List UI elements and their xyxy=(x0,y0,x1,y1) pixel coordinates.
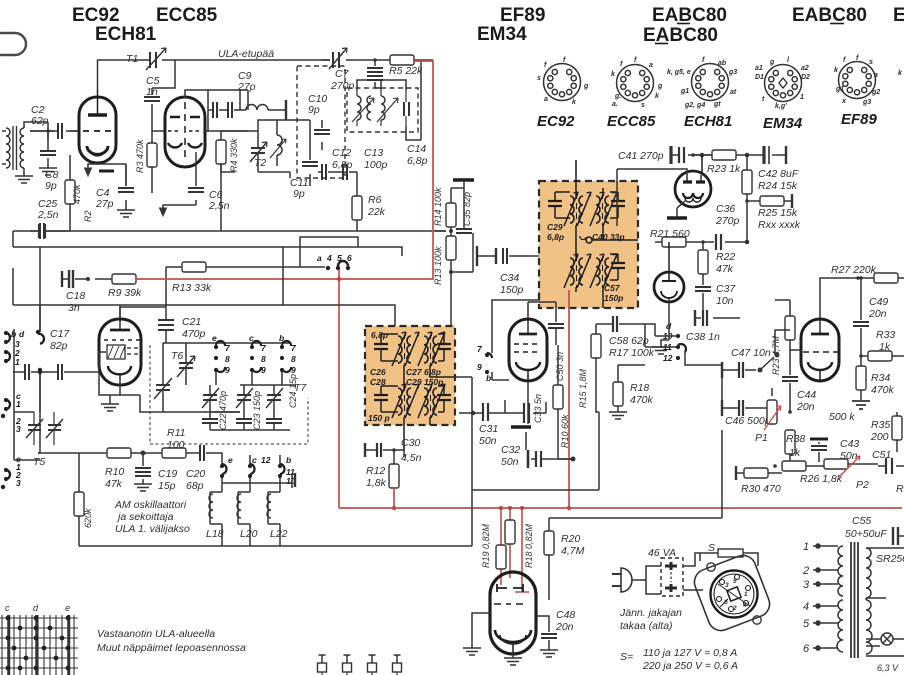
wire ECH81 plate up xyxy=(119,307,121,319)
ground EM34 xyxy=(667,201,687,218)
svg-text:6: 6 xyxy=(803,643,810,655)
wire R24 down xyxy=(617,169,747,242)
wire IF box top xyxy=(357,60,433,140)
switch box dashed xyxy=(661,558,683,596)
svg-text:g1: g1 xyxy=(680,88,689,95)
svg-text:3n: 3n xyxy=(68,302,80,314)
wire T1 down C5 xyxy=(152,60,175,131)
switch contacts group 3 xyxy=(280,341,297,375)
wire red drop R19 xyxy=(500,508,502,585)
wire C35 bar xyxy=(435,180,464,231)
svg-text:T5: T5 xyxy=(33,456,45,468)
wire L row xyxy=(216,453,292,488)
svg-text:g.: g. xyxy=(614,93,621,100)
svg-text:2,5n: 2,5n xyxy=(208,200,230,212)
ground C19 xyxy=(134,484,152,491)
resistor R9 39k xyxy=(86,274,142,299)
box2 cap top right xyxy=(437,334,451,361)
wire red R9 to R5 line xyxy=(136,61,433,279)
svg-text:EC92: EC92 xyxy=(537,113,575,130)
capacitor C17 xyxy=(13,364,78,380)
svg-text:R34: R34 xyxy=(871,372,890,384)
svg-text:C14: C14 xyxy=(407,143,426,155)
svg-text:S: S xyxy=(708,542,715,554)
svg-text:8: 8 xyxy=(225,354,230,364)
wire red R12 to bus xyxy=(393,488,395,508)
svg-text:C55: C55 xyxy=(852,515,871,527)
svg-text:C23 150p: C23 150p xyxy=(252,391,262,430)
svg-text:2: 2 xyxy=(802,565,809,577)
corner tab xyxy=(0,33,26,55)
wire L bottom xyxy=(38,412,472,546)
wire C34 to grid xyxy=(492,300,540,380)
resistor R35 200 xyxy=(870,412,902,452)
svg-text:3: 3 xyxy=(16,478,21,488)
trimmer T1 xyxy=(146,48,166,70)
svg-text:C38 1n: C38 1n xyxy=(686,331,720,343)
resistor R20 4,7M xyxy=(544,518,585,600)
svg-text:150p: 150p xyxy=(604,293,623,303)
capacitor C48 20n xyxy=(536,609,575,657)
svg-text:C50 3n: C50 3n xyxy=(555,352,565,381)
svg-text:L22: L22 xyxy=(270,528,288,540)
caps below trimmers xyxy=(202,385,296,430)
dashed box FM IF transformer xyxy=(347,88,418,132)
capacitor C37 10n xyxy=(695,274,736,318)
svg-text:R33: R33 xyxy=(876,329,895,341)
transformer primary windings xyxy=(837,546,843,652)
box2 coil pair left xyxy=(392,332,419,366)
svg-text:10n: 10n xyxy=(716,295,734,307)
svg-text:R11: R11 xyxy=(167,427,185,439)
svg-text:R: R xyxy=(896,483,904,495)
svg-text:R15 1,8M: R15 1,8M xyxy=(578,368,588,408)
small triode V5 xyxy=(654,242,684,302)
wire red drop grid xyxy=(515,508,529,592)
svg-text:T1: T1 xyxy=(126,53,138,65)
svg-text:4: 4 xyxy=(803,601,809,613)
svg-text:470k: 470k xyxy=(630,394,654,406)
svg-text:20n: 20n xyxy=(868,308,887,320)
svg-text:500 k: 500 k xyxy=(829,411,855,423)
wire bus y247 xyxy=(13,247,402,256)
svg-text:EABC80: EABC80 xyxy=(792,5,867,26)
svg-text:4: 4 xyxy=(742,602,747,609)
svg-text:C47 10n: C47 10n xyxy=(731,347,771,359)
label EABC80 A xyxy=(643,25,718,46)
wire red IF plate feed xyxy=(568,290,570,508)
svg-text:g3: g3 xyxy=(862,99,871,106)
svg-text:2: 2 xyxy=(732,605,737,612)
junction red R12 xyxy=(392,506,396,510)
svg-text:R35: R35 xyxy=(871,419,890,431)
svg-text:c: c xyxy=(5,603,10,613)
svg-text:T6: T6 xyxy=(171,350,183,362)
svg-text:c: c xyxy=(252,455,257,465)
svg-text:46 VA: 46 VA xyxy=(648,547,676,559)
end bar L row xyxy=(294,473,296,487)
resistor R18 0,82M xyxy=(505,520,534,568)
svg-text:EC92: EC92 xyxy=(72,5,120,26)
svg-text:68p: 68p xyxy=(186,480,204,492)
svg-text:T7: T7 xyxy=(294,382,307,394)
svg-text:R4 330k: R4 330k xyxy=(229,138,239,172)
svg-text:1: 1 xyxy=(800,94,804,101)
svg-text:a: a xyxy=(544,96,548,103)
capacitor C10 xyxy=(314,120,330,150)
svg-text:ECC85: ECC85 xyxy=(156,5,218,26)
svg-text:50+50uF: 50+50uF xyxy=(845,528,887,540)
svg-text:1k: 1k xyxy=(879,341,891,353)
svg-text:C18: C18 xyxy=(66,290,85,302)
svg-text:1: 1 xyxy=(15,357,20,367)
capacitor C20 68p xyxy=(196,445,216,461)
capacitor C50 3n xyxy=(548,324,565,381)
resistor R3 470k xyxy=(135,131,157,193)
wire into orange box top xyxy=(576,160,603,196)
svg-text:R18 0,82M: R18 0,82M xyxy=(524,523,534,568)
FM IF transformer coils xyxy=(352,90,409,126)
svg-text:g: g xyxy=(657,83,663,90)
tube EABC80 V7 output xyxy=(490,572,536,654)
coil L18 xyxy=(208,488,223,528)
potentiometer P1 xyxy=(755,388,781,444)
wire x283 riser xyxy=(221,164,283,305)
resistor R13 33k xyxy=(120,262,325,320)
capacitor C34 150p xyxy=(477,246,540,300)
svg-text:1,8k: 1,8k xyxy=(366,477,387,489)
svg-text:4: 4 xyxy=(326,253,332,263)
svg-text:R21 560: R21 560 xyxy=(650,228,690,240)
capacitor C8 xyxy=(39,133,57,175)
svg-text:C12: C12 xyxy=(332,147,351,159)
resistor R22 47k xyxy=(698,240,735,275)
svg-text:R3 470k: R3 470k xyxy=(135,139,145,173)
tube EM34 indicator xyxy=(675,155,711,207)
box2 coil pair right xyxy=(418,332,445,366)
ground ECH81 xyxy=(101,395,119,411)
ground triode xyxy=(652,302,670,354)
coil mixer xyxy=(270,120,286,166)
wire red drop R18 xyxy=(509,508,511,578)
svg-text:20n: 20n xyxy=(796,401,815,413)
dashed marker R11 xyxy=(150,345,308,444)
svg-text:k, g5, e: k, g5, e xyxy=(667,69,691,76)
resistor R12 1,8k xyxy=(366,448,399,489)
svg-text:R14 100k: R14 100k xyxy=(433,187,443,226)
svg-text:47k: 47k xyxy=(716,263,734,275)
svg-text:9p: 9p xyxy=(293,188,305,200)
ground antenna xyxy=(15,176,33,183)
svg-text:200: 200 xyxy=(870,431,889,443)
junction red bus xyxy=(567,506,571,510)
svg-text:g1: g1 xyxy=(835,86,844,93)
resistor R33 1k xyxy=(859,329,904,361)
wire x358 up xyxy=(300,237,358,267)
svg-text:C58 62p: C58 62p xyxy=(609,335,649,347)
svg-text:9p: 9p xyxy=(45,180,57,192)
svg-text:C29: C29 xyxy=(547,222,563,232)
capacitor C2 xyxy=(30,123,79,139)
svg-text:R38: R38 xyxy=(786,433,805,445)
resistor R10 60k xyxy=(553,345,573,459)
trimmer T2 xyxy=(250,131,267,172)
svg-text:C51: C51 xyxy=(872,449,891,461)
tube socket EF89 xyxy=(834,55,903,128)
svg-text:C20: C20 xyxy=(186,468,205,480)
svg-text:22k: 22k xyxy=(367,206,386,218)
svg-text:110 ja 127 V = 0,8 A: 110 ja 127 V = 0,8 A xyxy=(643,647,737,659)
svg-text:g2, g4: g2, g4 xyxy=(684,102,705,109)
capacitor C46 500p xyxy=(722,370,768,430)
switch contacts group 2 xyxy=(250,341,267,375)
capacitor C42 8uF xyxy=(745,146,786,164)
IF2 primary coil pair xyxy=(564,254,591,288)
svg-text:e: e xyxy=(212,333,217,343)
svg-text:6,8p: 6,8p xyxy=(547,232,564,242)
capacitor C38 pair xyxy=(695,310,740,326)
svg-text:ja sekoittaja: ja sekoittaja xyxy=(116,511,174,523)
wire EF89 plate xyxy=(528,302,556,322)
label EABC80 C xyxy=(792,5,867,26)
svg-text:150p: 150p xyxy=(500,284,524,296)
svg-text:3: 3 xyxy=(725,582,729,589)
label EABC80 B xyxy=(652,5,727,26)
wire T6 bottom xyxy=(120,395,240,412)
svg-text:R18: R18 xyxy=(630,382,649,394)
svg-text:4,5n: 4,5n xyxy=(401,452,422,464)
svg-text:b: b xyxy=(279,333,284,343)
resistor R25 15k xyxy=(745,194,801,231)
svg-text:takaa (alta): takaa (alta) xyxy=(620,620,673,632)
wire C9 junction xyxy=(239,90,241,110)
svg-text:at: at xyxy=(730,89,737,96)
svg-text:220 ja 250 V = 0,6 A: 220 ja 250 V = 0,6 A xyxy=(642,660,738,672)
svg-text:C57: C57 xyxy=(604,283,621,293)
capacitor C4 xyxy=(117,164,135,217)
capacitor C25 xyxy=(30,223,70,239)
svg-text:b: b xyxy=(286,455,291,465)
secondary wires xyxy=(866,548,904,656)
box2 coil pair bottom left xyxy=(392,384,419,418)
capacitor C32 50n xyxy=(528,450,575,468)
red bus main xyxy=(339,507,902,509)
coil L22 xyxy=(267,488,280,528)
dashed box C10 xyxy=(297,66,345,178)
svg-text:E: E xyxy=(893,5,904,26)
capacitor C47 10n xyxy=(722,353,779,378)
svg-text:R13 100k: R13 100k xyxy=(433,246,443,285)
svg-text:C21: C21 xyxy=(182,316,201,328)
transformer secondary windings xyxy=(866,548,872,654)
resistor R30 470 xyxy=(736,464,782,495)
svg-text:a: a xyxy=(649,62,653,69)
tube EC92 V1 xyxy=(79,90,116,163)
box2 cap top left xyxy=(374,334,398,361)
mains plug xyxy=(612,566,661,594)
svg-text:C37: C37 xyxy=(716,283,736,295)
svg-text:6: 6 xyxy=(347,253,352,263)
capacitor C55 xyxy=(893,527,904,545)
capacitor C18 xyxy=(62,270,112,288)
resistor 620k xyxy=(74,453,93,546)
trimmer cap AM xyxy=(202,385,219,412)
tube socket ECH81 xyxy=(667,57,737,130)
svg-text:s: s xyxy=(641,102,645,109)
svg-text:Jänn. jakajan: Jänn. jakajan xyxy=(619,607,682,619)
capacitor C7b xyxy=(367,58,383,88)
svg-text:20n: 20n xyxy=(555,621,574,633)
capacitor C57 xyxy=(610,254,625,280)
svg-text:9: 9 xyxy=(225,365,230,375)
svg-text:C33 5n: C33 5n xyxy=(533,394,543,423)
svg-text:s: s xyxy=(537,75,541,82)
potentiometer 500k xyxy=(829,411,855,423)
svg-text:C43: C43 xyxy=(840,438,859,450)
resistor R27 220k xyxy=(820,273,904,320)
wire C21 row xyxy=(163,342,290,344)
box2 cap bottom right xyxy=(437,386,451,412)
svg-text:82p: 82p xyxy=(50,340,68,352)
svg-text:6,3 V: 6,3 V xyxy=(877,663,899,673)
svg-text:L18: L18 xyxy=(206,528,224,540)
wire switch to C58 xyxy=(645,324,700,365)
svg-text:270p: 270p xyxy=(715,215,740,227)
wire switch rows xyxy=(216,343,282,385)
svg-text:e: e xyxy=(228,455,233,465)
capacitor network row xyxy=(208,90,286,120)
svg-text:ULA 1. välijakso: ULA 1. välijakso xyxy=(115,523,190,535)
svg-text:9: 9 xyxy=(291,365,296,375)
svg-text:R12: R12 xyxy=(366,465,385,477)
resistor R26 1,8k xyxy=(782,459,878,485)
svg-text:EF89: EF89 xyxy=(841,111,878,128)
svg-text:R30 470: R30 470 xyxy=(741,483,781,495)
svg-text:P1: P1 xyxy=(755,432,768,444)
capacitor C41 270p xyxy=(671,146,712,164)
svg-text:R23 1k: R23 1k xyxy=(707,163,741,175)
junction red xyxy=(337,277,341,281)
svg-text:C35 82p: C35 82p xyxy=(462,192,472,226)
switch a 4 5 6 xyxy=(317,253,352,270)
svg-text:Rxx xxxk: Rxx xxxk xyxy=(758,219,801,231)
svg-text:b: b xyxy=(486,373,491,383)
wire ECH81 leads xyxy=(78,305,120,395)
selector numbers xyxy=(724,578,748,612)
svg-text:50n: 50n xyxy=(501,456,519,468)
svg-text:EM34: EM34 xyxy=(763,115,803,132)
svg-text:C30: C30 xyxy=(401,437,420,449)
svg-text:12: 12 xyxy=(663,353,673,363)
transformer core xyxy=(851,542,858,658)
svg-text:EF89: EF89 xyxy=(500,5,545,26)
svg-text:12: 12 xyxy=(261,455,271,465)
svg-text:b: b xyxy=(11,329,16,339)
svg-text:8: 8 xyxy=(291,354,296,364)
resistor R13b 100k xyxy=(433,227,473,326)
capacitor C33 5n xyxy=(511,381,543,450)
wire ECC85 out xyxy=(185,90,248,131)
switch contacts group 1 xyxy=(214,341,231,375)
tube socket EM34 xyxy=(755,57,810,132)
svg-text:9p: 9p xyxy=(308,104,320,116)
svg-text:s: s xyxy=(869,59,873,66)
pilot lamp xyxy=(866,633,904,645)
switch contacts 7 9 b xyxy=(477,344,492,383)
svg-text:ab: ab xyxy=(718,60,727,67)
voltage selector dial xyxy=(711,571,758,618)
svg-text:1: 1 xyxy=(803,541,809,553)
svg-text:ECH81: ECH81 xyxy=(684,113,732,130)
svg-text:S=: S= xyxy=(620,651,633,663)
svg-text:C34: C34 xyxy=(500,272,519,284)
svg-text:ECC85: ECC85 xyxy=(607,113,656,130)
svg-text:47k: 47k xyxy=(105,478,123,490)
svg-text:C42 8uF: C42 8uF xyxy=(758,168,799,180)
svg-text:470k: 470k xyxy=(871,384,895,396)
svg-text:6,8p: 6,8p xyxy=(407,155,428,167)
IF1 primary coil pair xyxy=(564,192,591,226)
svg-text:R10: R10 xyxy=(105,466,124,478)
svg-text:3: 3 xyxy=(16,424,21,434)
capacitor C11 xyxy=(302,120,318,186)
keyboard matrix xyxy=(0,615,78,675)
svg-text:C36: C36 xyxy=(716,203,735,215)
svg-text:R10 60k: R10 60k xyxy=(560,414,570,448)
capacitor pair right of R21 xyxy=(716,234,749,250)
svg-text:5: 5 xyxy=(733,578,737,585)
svg-text:6,8p: 6,8p xyxy=(371,330,388,340)
svg-text:C22 470p: C22 470p xyxy=(218,391,228,430)
resistor R18 470k xyxy=(609,365,654,419)
svg-text:R17 100k: R17 100k xyxy=(609,347,655,359)
box2 cap bottom left xyxy=(374,386,398,412)
svg-text:R2: R2 xyxy=(83,210,93,222)
left hook contacts upper xyxy=(4,330,44,372)
svg-text:C7: C7 xyxy=(335,68,350,80)
ground tube V7 xyxy=(463,613,522,665)
svg-text:C48: C48 xyxy=(556,609,575,621)
svg-text:C46 500p: C46 500p xyxy=(725,415,771,427)
resistor R34 470k xyxy=(852,356,895,409)
capacitor C21 470p xyxy=(158,320,174,343)
svg-text:470p: 470p xyxy=(182,328,206,340)
svg-text:P2: P2 xyxy=(856,479,869,491)
svg-text:C13: C13 xyxy=(364,147,383,159)
svg-text:c: c xyxy=(249,333,254,343)
transformer tap numbers xyxy=(802,541,810,655)
wire right column joins xyxy=(700,330,790,400)
label C40 33p xyxy=(580,232,625,242)
wire bus y268 xyxy=(39,247,41,412)
wire grid ECC85 xyxy=(70,131,165,186)
svg-text:Vastaanotin ULA-alueella: Vastaanotin ULA-alueella xyxy=(97,628,215,640)
capacitor C51 xyxy=(878,458,904,474)
resistor R23 1k xyxy=(691,150,747,175)
capacitor C6 xyxy=(188,152,204,205)
svg-text:27p: 27p xyxy=(95,198,114,210)
svg-text:R5 22k: R5 22k xyxy=(389,65,423,77)
left hook contacts lower xyxy=(1,468,10,489)
tube ECC85 V2 xyxy=(165,97,205,167)
svg-text:g: g xyxy=(583,83,589,90)
capacitor C30 4,5n xyxy=(365,443,404,457)
resistor R11 xyxy=(162,448,196,458)
svg-text:1: 1 xyxy=(16,399,21,409)
svg-text:620k: 620k xyxy=(83,508,93,528)
svg-text:R13 33k: R13 33k xyxy=(172,282,212,294)
junction dot grid row xyxy=(38,370,42,374)
